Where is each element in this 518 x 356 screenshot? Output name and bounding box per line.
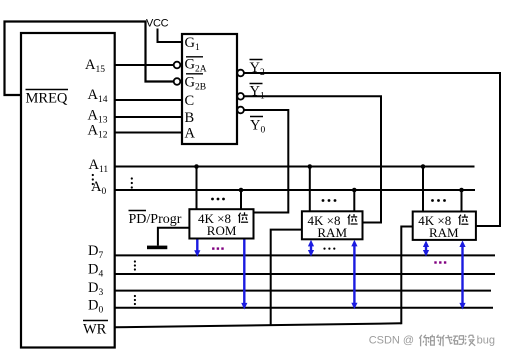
ellipsis above RAM2	[431, 199, 446, 202]
ellipsis above ROM	[211, 198, 225, 201]
wire RAM1 addr right	[353, 190, 355, 211]
decoder U1 (74LS138) box	[182, 34, 237, 144]
junction A0/RAM1	[352, 188, 357, 193]
wire ROM addr left	[196, 167, 198, 210]
junction A11/ROM	[194, 164, 199, 169]
wire D7	[115, 254, 495, 256]
svg-text:Y1: Y1	[250, 84, 265, 102]
bubble Y0	[237, 107, 244, 114]
wire A15 to G2A	[115, 64, 174, 66]
wire A13 to B	[115, 116, 182, 118]
bubble Y2	[237, 70, 244, 77]
svg-text:WR: WR	[83, 322, 107, 338]
wire VCC to G1	[158, 29, 183, 43]
bubble G2A	[174, 62, 181, 69]
blue data arrow RAM2 D0	[459, 240, 465, 309]
label Y1	[250, 83, 263, 85]
blue data arrow RAM1 D0	[351, 240, 357, 309]
junction A0/ROM	[239, 188, 244, 193]
vertical ellipsis on address bus	[131, 177, 133, 188]
wire A14 to C	[115, 99, 182, 101]
wire A12 to A	[115, 132, 182, 134]
bubble G2B	[174, 78, 181, 85]
svg-text:RAM: RAM	[317, 225, 347, 240]
svg-text:ROM: ROM	[207, 223, 237, 238]
wire A0 bus	[115, 189, 475, 191]
vertical ellipsis D3..D0	[134, 295, 136, 305]
svg-text:Y0: Y0	[250, 118, 265, 136]
svg-text:Y2: Y2	[250, 60, 265, 78]
watermark char ma	[453, 336, 463, 345]
label PD/Progr	[129, 210, 147, 212]
watermark char mei	[465, 335, 475, 346]
label MREQ	[26, 89, 69, 91]
blue data arrow RAM1 D7	[308, 240, 314, 257]
wire WR to RAM1	[271, 230, 302, 326]
junction A0/RAM2	[459, 188, 464, 193]
watermark char dai	[442, 335, 453, 346]
svg-text:B: B	[185, 110, 195, 126]
svg-text:RAM: RAM	[429, 225, 459, 240]
watermark char ni	[419, 335, 429, 347]
label WR	[83, 320, 108, 322]
wire PD to ground	[158, 228, 190, 246]
wire D0	[115, 307, 493, 309]
junction A11/RAM2	[421, 164, 426, 169]
svg-text:PD/Progr: PD/Progr	[129, 212, 182, 227]
blue data arrow RAM2 D7	[423, 240, 429, 256]
label Y2	[250, 59, 263, 61]
blue data arrow ROM D0	[241, 240, 247, 310]
wire ROM addr right	[240, 190, 242, 209]
bubble Y1	[237, 93, 244, 100]
wire D4	[115, 273, 495, 275]
black ellipsis below RAM1	[323, 248, 335, 250]
junction A11/RAM1	[308, 164, 313, 169]
wire A11 bus	[115, 166, 475, 168]
vertical ellipsis D7..D4	[134, 260, 136, 270]
label Y0	[250, 116, 263, 118]
blue data arrow ROM D7	[194, 240, 200, 257]
svg-text:MREQ: MREQ	[26, 91, 68, 107]
wire RAM1 addr left	[309, 167, 311, 212]
purple ellipsis below ROM	[212, 247, 224, 249]
wire Y1 to RAM1 CS	[244, 96, 381, 222]
vertical ellipsis A11..A0 inside box	[92, 174, 94, 185]
wire Y2 to RAM2 CS	[244, 73, 500, 226]
svg-text:A: A	[185, 126, 196, 142]
pin label G2B (active low)	[186, 73, 203, 75]
CPU big box	[21, 33, 115, 348]
ellipsis above RAM1	[322, 199, 337, 202]
wire WR	[115, 323, 402, 327]
wire RAM2 addr right	[461, 190, 463, 212]
watermark char de	[431, 335, 441, 345]
wire RAM2 addr left	[422, 167, 424, 212]
ground	[147, 246, 167, 250]
purple ellipsis below RAM2	[434, 261, 446, 263]
wire Y0 to ROM CS	[244, 110, 288, 213]
ROM chip box	[189, 209, 253, 238]
wire MREQ loop to G2B	[5, 22, 174, 96]
wire D3	[115, 290, 491, 292]
svg-text:VCC: VCC	[146, 17, 169, 29]
svg-text:bug: bug	[477, 334, 495, 346]
RAM2 chip box	[413, 212, 476, 240]
RAM1 chip box	[302, 211, 363, 239]
wire WR to RAM2	[401, 227, 412, 325]
svg-text:C: C	[185, 93, 195, 109]
svg-text:CSDN @: CSDN @	[369, 334, 414, 346]
pin label G2A (active low)	[186, 56, 203, 58]
